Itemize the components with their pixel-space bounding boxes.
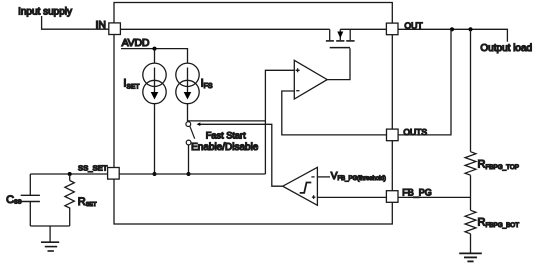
junction [187,172,191,176]
comparator power good [283,167,318,205]
wire comparator plus to FB_PG [317,196,386,198]
resistor RFBPG_BOT [465,210,476,234]
wire comparator output control [200,124,283,186]
pin OUT [386,23,398,35]
svg-text:IN: IN [96,19,107,31]
wire bottom rail [30,225,69,227]
resistor RSET [65,174,74,226]
arrowhead control [197,122,201,126]
wire ISET tap [154,49,156,64]
wire ground stem [49,226,51,242]
wire switch node to error amp input [188,120,265,122]
wire ISET to SS rail [154,104,156,174]
wire divider middle [470,175,472,210]
wire AVDD rail [121,49,188,64]
wire source rail MOSFET to OUT [340,28,386,30]
transistor pass FET [326,29,355,47]
resistor RFBPG_TOP [465,152,476,176]
ground left [41,242,59,251]
IC block [114,3,392,225]
switch fast start [186,122,195,145]
svg-text:Input supply: Input supply [18,7,72,18]
wire gate drive [327,48,350,79]
wire divider bottom [470,234,472,253]
capacitor CSS [21,174,40,226]
svg-text:Fast Start: Fast Start [206,131,246,141]
wire drain rail IN to MOSFET [120,28,330,30]
op-amp error amplifier [294,60,327,99]
ground right [459,253,482,261]
pin SS_SET [108,168,120,180]
hysteresis symbol [300,183,312,193]
wire OUTS external [398,29,451,135]
junction [468,27,472,31]
wire SS external [30,173,107,175]
svg-text:AVDD: AVDD [122,37,150,49]
current source ISET [143,63,166,104]
wire input supply [42,16,109,29]
pin FB_PG [386,191,398,203]
svg-text:Enable/Disable: Enable/Disable [191,142,259,153]
svg-text:OUTS: OUTS [403,127,427,137]
svg-text:FB_PG: FB_PG [402,188,432,198]
junction [153,47,157,51]
pin OUTS [387,129,399,141]
wire IFS to switch [187,104,189,122]
wire FB_PG external [398,196,471,198]
svg-text:SS_SET: SS_SET [78,164,108,173]
wire output divider top [470,29,472,151]
wire inverting input to OUTS [282,91,387,135]
svg-text:Output load: Output load [480,43,532,54]
pin IN [109,23,121,35]
wire switch to SS rail [188,145,190,174]
wire OUT external [398,29,507,41]
current source IFS [176,63,199,104]
junction [450,27,454,31]
junction [68,172,72,176]
wire Vth stub [317,176,330,178]
wire SS_SET rail [119,173,265,175]
junction [153,172,157,176]
wire noninverting input [265,70,294,174]
